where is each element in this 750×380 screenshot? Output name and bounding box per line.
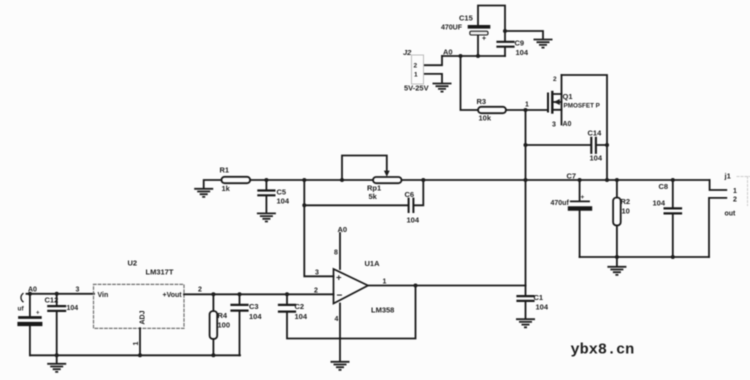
svg-text:+: + — [581, 194, 585, 201]
svg-text:C8: C8 — [659, 182, 669, 191]
svg-text:104: 104 — [653, 199, 666, 208]
svg-text:out: out — [725, 211, 737, 218]
svg-text:2: 2 — [414, 63, 418, 70]
svg-text:J2: J2 — [403, 48, 412, 57]
svg-text:LM358: LM358 — [371, 306, 394, 315]
svg-text:C7: C7 — [567, 172, 577, 181]
svg-text:R4: R4 — [218, 311, 228, 320]
svg-text:104: 104 — [407, 216, 420, 225]
svg-text:100: 100 — [218, 321, 231, 330]
svg-text:1: 1 — [525, 102, 529, 109]
svg-text:A0: A0 — [338, 225, 348, 234]
svg-text:uf: uf — [18, 306, 25, 313]
svg-text:−: − — [337, 291, 343, 302]
svg-text:+Vout: +Vout — [163, 292, 183, 299]
svg-text:A0: A0 — [28, 287, 37, 294]
svg-text:2: 2 — [198, 287, 202, 294]
svg-text:R1: R1 — [220, 166, 230, 175]
svg-text:Vin: Vin — [98, 292, 109, 299]
svg-text:C15: C15 — [459, 14, 473, 23]
svg-text:104: 104 — [516, 48, 529, 57]
svg-text:470UF: 470UF — [441, 25, 463, 32]
svg-text:C5: C5 — [277, 188, 287, 197]
svg-text:R2: R2 — [621, 197, 631, 206]
svg-text:A0: A0 — [443, 48, 453, 57]
svg-text:C2: C2 — [295, 302, 305, 311]
svg-text:+: + — [36, 311, 40, 317]
svg-text:C6: C6 — [405, 190, 415, 199]
svg-text:104: 104 — [249, 312, 262, 321]
svg-text:C1: C1 — [534, 293, 544, 302]
svg-text:5k: 5k — [369, 192, 378, 201]
svg-text:2: 2 — [733, 197, 737, 204]
svg-text:1: 1 — [733, 188, 737, 195]
svg-text:C3: C3 — [249, 302, 259, 311]
svg-text:PMOSFET P: PMOSFET P — [564, 103, 600, 110]
svg-text:A0: A0 — [563, 121, 572, 128]
svg-text:8: 8 — [334, 250, 338, 257]
svg-text:U1A: U1A — [365, 259, 381, 268]
svg-text:+: + — [482, 36, 486, 43]
svg-text:3: 3 — [552, 122, 556, 129]
svg-text:10k: 10k — [479, 114, 492, 123]
svg-text:470uf: 470uf — [551, 200, 570, 207]
svg-text:U2: U2 — [128, 259, 138, 268]
svg-text:3: 3 — [76, 287, 80, 294]
svg-text:3: 3 — [315, 270, 319, 277]
svg-text:1k: 1k — [222, 184, 231, 193]
svg-text:1: 1 — [133, 342, 140, 346]
svg-text:2: 2 — [553, 76, 557, 83]
svg-text:R3: R3 — [477, 97, 487, 106]
svg-text:1: 1 — [383, 279, 387, 286]
svg-text:C9: C9 — [515, 39, 525, 48]
svg-text:2: 2 — [314, 288, 318, 295]
svg-text:4: 4 — [335, 316, 339, 323]
svg-text:1: 1 — [414, 72, 418, 79]
svg-text:104: 104 — [590, 154, 603, 163]
svg-text:104: 104 — [67, 305, 79, 312]
svg-text:ybx8.cn: ybx8.cn — [571, 341, 635, 359]
svg-text:104: 104 — [295, 312, 308, 321]
svg-text:C12: C12 — [45, 296, 59, 305]
svg-text:ADJ: ADJ — [140, 310, 147, 324]
svg-text:j1: j1 — [724, 172, 731, 181]
svg-text:C14: C14 — [588, 129, 603, 138]
svg-text:Q1: Q1 — [563, 92, 573, 101]
svg-text:LM317T: LM317T — [146, 268, 174, 277]
svg-text:+: + — [336, 273, 342, 284]
svg-text:5V-25V: 5V-25V — [404, 84, 429, 93]
svg-text:104: 104 — [277, 197, 290, 206]
svg-text:10: 10 — [622, 207, 630, 216]
svg-text:104: 104 — [536, 303, 549, 312]
